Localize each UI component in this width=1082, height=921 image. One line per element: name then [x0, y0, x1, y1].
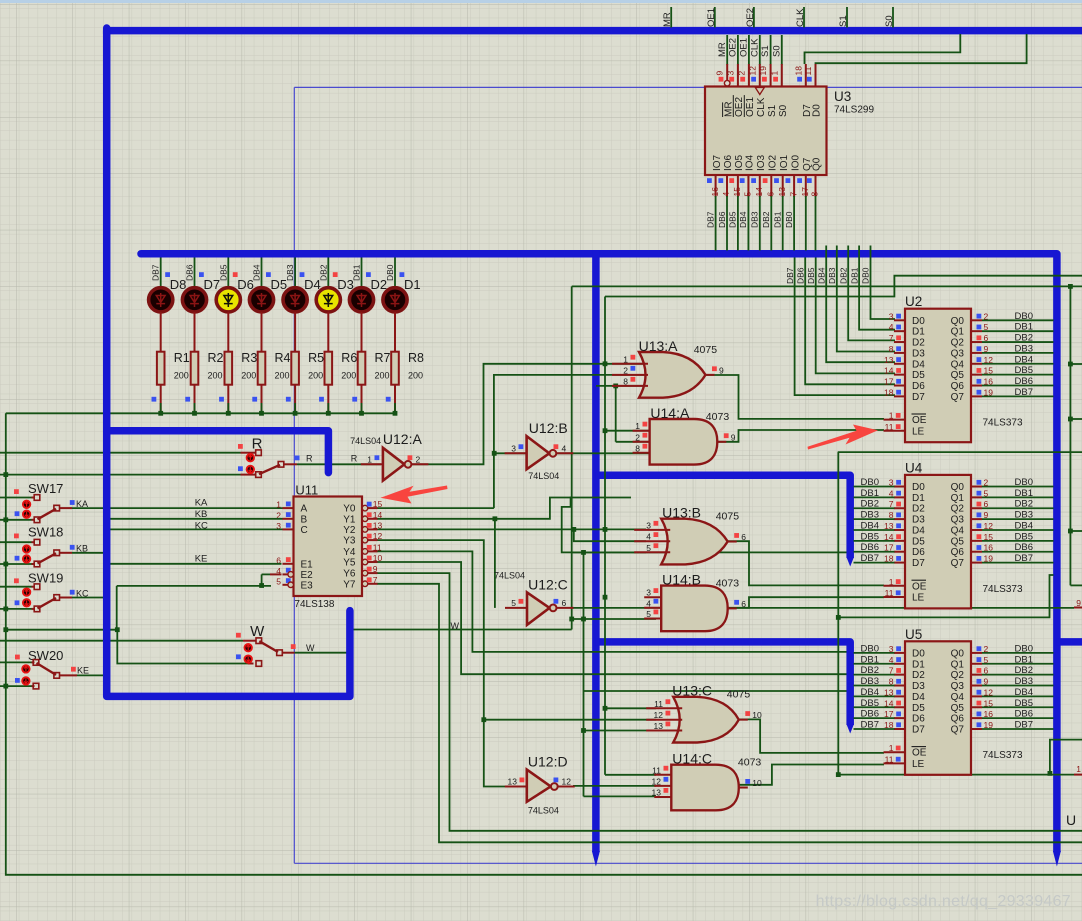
wire net DB5 from bus to LED D6	[227, 258, 229, 289]
svg-text:DB2: DB2	[1015, 333, 1033, 344]
LED D6	[216, 288, 240, 312]
svg-text:14: 14	[373, 510, 383, 520]
U3 bottom wire to bus (IO7)	[715, 196, 717, 251]
svg-text:6: 6	[741, 532, 746, 542]
svg-text:U5: U5	[905, 627, 922, 642]
latch U5 body (74LS373)	[905, 641, 971, 775]
svg-text:D6: D6	[912, 381, 925, 392]
wire net DB6 from U5 Q6 to right bus	[982, 717, 1054, 719]
wire net R to U12:A input	[297, 463, 381, 465]
junction dot R6 rail	[326, 411, 331, 416]
svg-text:Q0: Q0	[812, 157, 823, 171]
wire U12:D output row to U14:C in2	[573, 785, 656, 787]
svg-text:3: 3	[889, 311, 894, 321]
svg-text:DB0: DB0	[861, 267, 871, 284]
wire net S0 from top edge to bus	[892, 7, 894, 28]
pin indicator square D7	[199, 272, 204, 277]
svg-text:D0: D0	[912, 482, 925, 493]
and-gate U14:A input pin 2	[633, 441, 650, 443]
wire net DB4 into U4 D4	[854, 529, 895, 531]
svg-text:DB5: DB5	[806, 267, 816, 284]
svg-text:IO6: IO6	[723, 154, 734, 171]
svg-text:1: 1	[889, 577, 894, 587]
svg-text:DB7: DB7	[705, 211, 715, 228]
pin indicator square below R7	[352, 397, 357, 402]
U3 pin 9 (MR) top stub	[726, 35, 728, 65]
latch U5 pin 11 (LE) stub	[884, 762, 906, 764]
resistor R2 body	[191, 352, 199, 385]
wire net KC to bus entry	[72, 597, 104, 599]
svg-text:Q7: Q7	[951, 724, 965, 735]
and-gate U14:C output pin 10	[739, 787, 748, 789]
svg-text:IO0: IO0	[790, 154, 801, 171]
svg-text:DB7: DB7	[1015, 387, 1033, 398]
svg-text:R: R	[306, 454, 313, 464]
latch U4 pin 9 (Q3) stub	[971, 518, 982, 520]
bus: U5 latch feed bus y=642 with stub	[596, 642, 850, 725]
svg-text:12: 12	[654, 710, 664, 720]
svg-text:Q6: Q6	[951, 714, 965, 725]
bus: LED data bus horizontal y=254 and right vertical bus	[141, 250, 150, 258]
svg-text:OE: OE	[912, 415, 927, 426]
junction dots near x=572/583	[569, 617, 574, 622]
svg-text:W: W	[306, 643, 315, 653]
wire resistor R1 to ground rail	[160, 385, 162, 414]
svg-text:S0: S0	[778, 104, 789, 117]
latch U4 pin 13 (D4) stub	[894, 529, 905, 531]
bus: left vertical bus with bottom elbow and riser to x=350	[107, 28, 350, 696]
svg-text:R8: R8	[408, 351, 424, 365]
svg-text:CLK: CLK	[749, 38, 760, 57]
latch U5 pin 17 (D6) stub	[894, 717, 905, 719]
svg-text:Q2: Q2	[951, 504, 965, 515]
svg-text:LE: LE	[912, 426, 925, 437]
switch SW19 lever and pole	[38, 598, 57, 608]
U11 pin 13 (Y2) output stub with bubble	[362, 527, 368, 533]
svg-text:13: 13	[777, 187, 787, 197]
svg-text:DB1: DB1	[352, 264, 362, 281]
wire LED D6 to resistor R3	[227, 312, 229, 352]
wire U13:B output to U4 OE	[728, 541, 884, 585]
switch W toggle buttons	[245, 644, 252, 651]
svg-text:D2: D2	[912, 670, 925, 681]
U3 pin 16 (IO7) bottom stub	[715, 175, 717, 197]
svg-text:D0: D0	[912, 648, 925, 659]
svg-text:7: 7	[788, 192, 798, 197]
switch W lever and pole (down position)	[259, 641, 278, 652]
latch U2 pin 2 (Q0) stub	[971, 319, 982, 321]
svg-text:7: 7	[889, 333, 894, 343]
svg-text:D2: D2	[912, 338, 925, 349]
resistor R6 body	[325, 352, 333, 385]
inverter U12:A output stub	[411, 463, 428, 465]
or-gate U13:C body (4075)	[673, 697, 739, 743]
svg-text:DB4: DB4	[816, 267, 826, 284]
wire vertical x=605 main gate feed (in1 net)	[604, 297, 606, 775]
wire LED ground rail y=413	[6, 412, 395, 414]
U3 bottom wire to bus (IO2)	[770, 196, 772, 251]
svg-text:D1: D1	[912, 327, 925, 338]
U3 bottom wire to bus (Q0)	[815, 196, 817, 251]
svg-text:4: 4	[646, 532, 651, 542]
svg-text:DB2: DB2	[1015, 665, 1033, 676]
U3 bottom wire to bus (IO1)	[782, 196, 784, 251]
U3 chip body 74LS299	[705, 87, 827, 176]
wire net DB2 into U5 D2	[854, 674, 895, 676]
pin indicator square below R2	[185, 397, 190, 402]
svg-text:14: 14	[884, 366, 894, 376]
svg-text:Q2: Q2	[951, 670, 965, 681]
svg-text:DB0: DB0	[1015, 311, 1033, 322]
svg-text:OE: OE	[912, 748, 927, 759]
wire net DB7 from bus to LED D8	[160, 258, 162, 289]
wire net DB4 into U5 D4	[854, 695, 895, 697]
net label KB at switch	[70, 545, 75, 550]
svg-text:74LS373: 74LS373	[983, 418, 1023, 429]
pin indicator square below R8	[386, 397, 391, 402]
wire net DB3 from U5 Q3 to right bus	[982, 685, 1054, 687]
latch U2 body (74LS373)	[905, 309, 971, 443]
wire net DB7 from U5 Q7 to right bus	[982, 728, 1054, 730]
svg-text:KE: KE	[195, 554, 208, 565]
wire net DB0 from U5 Q0 to right bus	[982, 652, 1054, 654]
and-gate U14:A input pin 1	[633, 430, 650, 432]
svg-text:DB3: DB3	[827, 267, 837, 284]
svg-text:DB4: DB4	[861, 520, 879, 531]
svg-text:R5: R5	[308, 351, 324, 365]
svg-text:10: 10	[373, 553, 383, 563]
svg-text:10: 10	[752, 778, 762, 788]
U3 bottom wire to bus (IO4)	[747, 196, 749, 251]
junction dot R3 rail	[226, 411, 231, 416]
or-gate U13:A body (4075)	[639, 352, 706, 398]
wire row y=617 to x=1049.5 and up to bus	[838, 575, 1053, 617]
svg-text:DB3: DB3	[1015, 676, 1033, 687]
wire LED D3 to resistor R6	[327, 312, 329, 352]
svg-text:13: 13	[652, 788, 662, 798]
svg-text:MR: MR	[723, 101, 734, 117]
latch U5 pin 2 (Q0) stub	[971, 652, 982, 654]
svg-text:DB2: DB2	[761, 211, 771, 228]
svg-text:DB6: DB6	[1015, 376, 1033, 387]
wire net DB0 from U2 Q0 to right bus	[982, 319, 1054, 321]
latch U2 pin 9 (Q3) stub	[971, 352, 982, 354]
wire branch y=585 to right edge	[1070, 584, 1082, 586]
wire net DB0 column to U2 D0	[871, 246, 896, 320]
svg-text:5: 5	[276, 576, 281, 586]
wire row y=630 left of bus	[4, 629, 117, 631]
svg-text:Q2: Q2	[951, 338, 965, 349]
latch U4 pin 11 (LE) stub	[884, 596, 906, 598]
svg-text:U3: U3	[834, 89, 851, 104]
svg-text:D4: D4	[912, 359, 925, 370]
svg-text:12: 12	[652, 776, 662, 786]
bus: R branch bus y=431 with stub down	[107, 431, 329, 473]
svg-text:DB4: DB4	[252, 264, 262, 281]
svg-text:DB0: DB0	[784, 211, 794, 228]
svg-text:U12:A: U12:A	[383, 431, 423, 447]
or-gate U13:A input pin 1	[612, 363, 648, 365]
svg-text:12: 12	[373, 531, 383, 541]
and-gate U14:C input pin 11	[654, 774, 671, 776]
latch U2 pin 6 (Q2) stub	[971, 341, 982, 343]
wire net KC row into U11 C	[110, 528, 283, 530]
svg-text:1: 1	[889, 743, 894, 753]
svg-text:200: 200	[408, 371, 423, 381]
wire vertical x=1070 right margin with branches	[1069, 286, 1071, 585]
junction dots on far-left vertical	[3, 472, 8, 477]
svg-text:DB0: DB0	[861, 477, 879, 488]
switch SW17 toggle buttons	[23, 501, 30, 508]
latch U5 pin 12 (Q4) stub	[971, 695, 982, 697]
or-gate U13:A output pin 9	[706, 374, 715, 376]
wire net DB0 from bus to LED D1	[394, 258, 396, 289]
switch R state squares	[238, 444, 243, 449]
svg-text:DB2: DB2	[838, 267, 848, 284]
switch SW18 state squares	[14, 534, 19, 539]
svg-text:8: 8	[635, 443, 640, 453]
or-gate U13:A input pin 2	[612, 374, 648, 376]
svg-text:U14:B: U14:B	[662, 571, 701, 587]
wire net DB0 into U5 D0	[854, 652, 895, 654]
svg-text:DB6: DB6	[1015, 709, 1033, 720]
svg-text:DB5: DB5	[861, 698, 879, 709]
junction dot U12:C feed on Y1 row	[493, 516, 498, 521]
or-gate U13:B input pin 5	[634, 551, 670, 553]
resistor R7 body	[358, 352, 366, 385]
svg-text:KB: KB	[195, 509, 208, 520]
wire LED D5 to resistor R4	[261, 312, 263, 352]
bus: middle vertical bus pointed tip	[592, 851, 600, 867]
wire staircase to U13:B in3	[562, 497, 646, 553]
svg-text:11: 11	[885, 588, 894, 598]
wire net DB3 column to U2 D3	[837, 246, 895, 352]
pin indicator square D6	[233, 272, 238, 277]
svg-text:U4: U4	[905, 460, 923, 475]
U3 pin 19 (S1) top stub	[770, 35, 772, 65]
svg-text:74LS04: 74LS04	[528, 471, 559, 481]
wire net DB7 into U5 D7	[854, 728, 895, 730]
wire row y=691 to U5 bus stub	[584, 690, 847, 692]
wire net DB2 from U4 Q2 to right bus	[982, 507, 1054, 509]
svg-text:D3: D3	[912, 681, 925, 692]
wire net W: row y=629.5 from bus stub to x=571.7	[354, 629, 572, 631]
U11 pin 6 (E1) stub	[283, 563, 294, 565]
svg-text:Y6: Y6	[343, 569, 356, 580]
and-gate U14:B input pin 5	[644, 618, 661, 620]
latch U4 pin 6 (Q2) stub	[971, 507, 982, 509]
svg-text:8: 8	[623, 376, 628, 386]
U3 pin 13 (IO1) bottom stub	[782, 175, 784, 197]
svg-text:Q3: Q3	[951, 681, 965, 692]
svg-text:https://blog.csdn.net/qq_29339: https://blog.csdn.net/qq_29339467	[816, 893, 1071, 910]
wire net DB2 column to U2 D2	[848, 246, 895, 341]
latch U4 pin 17 (D6) stub	[894, 551, 905, 553]
pin indicator square D8	[165, 272, 170, 277]
wire net DB1 from bus to LED D2	[361, 258, 363, 289]
svg-text:1: 1	[769, 71, 779, 76]
bus: right vertical bus pointed tip	[1053, 851, 1061, 867]
svg-text:DB5: DB5	[728, 211, 738, 228]
svg-text:13: 13	[373, 520, 383, 530]
latch U2 pin 5 (Q1) stub	[971, 330, 982, 332]
latch U4 pin 15 (Q5) stub	[971, 540, 982, 542]
svg-text:4: 4	[562, 443, 567, 453]
wire D0 elbow from bus x=1027	[816, 34, 1027, 64]
wire branch y=364 to right edge	[1070, 363, 1082, 365]
svg-text:Y3: Y3	[343, 536, 356, 547]
resistor R4 body	[258, 352, 266, 385]
switch SW20 upper throw wire	[0, 661, 32, 663]
junction dot U12:B input	[492, 451, 497, 456]
svg-text:DB1: DB1	[849, 267, 859, 284]
wire net DB5 from U5 Q5 to right bus	[982, 706, 1054, 708]
svg-text:DB2: DB2	[1015, 499, 1033, 510]
latch U2 pin 16 (Q6) stub	[971, 385, 982, 387]
svg-text:11: 11	[885, 754, 894, 764]
svg-text:DB1: DB1	[1015, 322, 1033, 333]
svg-text:IO2: IO2	[768, 154, 779, 171]
U11 chip body 74LS138	[294, 497, 363, 597]
latch U2 pin 4 (D1) stub	[894, 330, 905, 332]
svg-text:U13:B: U13:B	[662, 505, 701, 521]
svg-text:8: 8	[889, 344, 894, 354]
inverter U12:D output stub	[558, 786, 575, 788]
wire LED D2 to resistor R7	[361, 312, 363, 352]
svg-text:DB4: DB4	[1015, 520, 1033, 531]
svg-text:18: 18	[793, 66, 803, 76]
wire net DB4 from bus to LED D5	[261, 258, 263, 289]
inverter U12:C output bubble	[550, 605, 557, 612]
and-gate U14:C input pin 13	[654, 796, 671, 798]
svg-text:7: 7	[373, 575, 378, 585]
latch U2 pin 19 (Q7) stub	[971, 395, 982, 397]
svg-text:LE: LE	[912, 759, 925, 770]
LED D3	[316, 288, 340, 312]
net label R on wire	[295, 456, 300, 461]
pin indicator square below R4	[252, 397, 257, 402]
or-gate U13:B input pin 3	[634, 529, 670, 531]
svg-text:OE2: OE2	[734, 97, 745, 117]
latch U4 pin 2 (Q0) stub	[971, 486, 982, 488]
wire net W to middle blue stub	[295, 652, 347, 654]
svg-text:DB0: DB0	[1015, 477, 1033, 488]
switch SW18 toggle buttons	[23, 545, 30, 552]
inverter U12:B output bubble	[550, 450, 557, 457]
svg-text:OE1: OE1	[739, 38, 750, 57]
wire riser x=1049.9 to row y=740	[1050, 740, 1082, 774]
svg-text:Y7: Y7	[343, 579, 356, 590]
svg-text:W: W	[451, 621, 460, 631]
pin indicator square below R3	[219, 397, 224, 402]
svg-text:DB4: DB4	[738, 211, 748, 228]
pin stub 9 at right edge	[1074, 607, 1082, 609]
wire row y=775 to right edge pin 1	[838, 774, 1074, 776]
svg-text:200: 200	[275, 371, 290, 381]
svg-text:D2: D2	[912, 504, 925, 515]
svg-text:5: 5	[511, 598, 516, 608]
svg-text:DB0: DB0	[861, 643, 879, 654]
svg-text:E2: E2	[301, 570, 314, 581]
svg-text:Y2: Y2	[343, 525, 356, 536]
svg-text:IO3: IO3	[756, 154, 767, 171]
svg-text:1: 1	[623, 354, 628, 364]
wire U14:C in3 row y=797 from x=583.5	[584, 795, 657, 797]
U3 bottom wire to bus (IO0)	[793, 196, 795, 251]
latch U4 pin 1 (OE) stub	[884, 585, 906, 587]
annotation arrow at U11 Y0 pin 15	[381, 486, 448, 504]
svg-text:DB6: DB6	[861, 542, 879, 553]
U3 bottom wire to bus (Q7)	[805, 196, 807, 251]
svg-text:9: 9	[715, 71, 725, 76]
svg-text:C: C	[301, 525, 308, 536]
svg-text:9: 9	[719, 365, 724, 375]
wire net OE2 from top edge to bus	[753, 7, 755, 28]
svg-text:2: 2	[623, 365, 628, 375]
wire net DB0 into U4 D0	[854, 486, 895, 488]
svg-text:2: 2	[635, 432, 640, 442]
inverter U12:A output bubble	[405, 461, 412, 468]
svg-text:200: 200	[241, 371, 256, 381]
resistor R5 body	[291, 352, 299, 385]
wire net DB0 from U4 Q0 to right bus	[982, 486, 1054, 488]
svg-text:3: 3	[646, 520, 651, 530]
svg-text:11: 11	[654, 699, 663, 709]
wire net DB1 from U5 Q1 to right bus	[982, 663, 1054, 665]
svg-text:4075: 4075	[727, 689, 751, 701]
wire LED D7 to resistor R2	[194, 312, 196, 352]
svg-text:Q5: Q5	[951, 536, 965, 547]
wire net DB3 into U4 D3	[854, 518, 895, 520]
U3 pin 8 (Q0) bottom stub	[815, 175, 817, 197]
svg-text:IO4: IO4	[745, 154, 756, 171]
wire Y0 row from U11 to x=494	[377, 507, 494, 509]
svg-text:Q0: Q0	[951, 648, 965, 659]
latch U4 pin 5 (Q1) stub	[971, 496, 982, 498]
LED D1	[383, 288, 407, 312]
U3 pin 15 (IO5) bottom stub	[737, 175, 739, 197]
svg-text:R2: R2	[208, 351, 224, 365]
svg-text:15: 15	[373, 499, 383, 509]
wire net DB4 from U5 Q4 to right bus	[982, 695, 1054, 697]
or-gate U13:B output pin 6	[728, 541, 737, 543]
svg-text:DB4: DB4	[1015, 687, 1033, 698]
switch R terminals	[256, 450, 262, 456]
inverter U12:B input stub	[505, 452, 527, 454]
svg-text:IO7: IO7	[712, 154, 723, 171]
wire U14:A output to U2 LE	[717, 430, 884, 442]
net label KA at switch	[70, 500, 75, 505]
switch W upper throw wire	[0, 640, 243, 642]
latch U2 pin 7 (D2) stub	[894, 341, 905, 343]
svg-text:Q6: Q6	[951, 381, 965, 392]
svg-text:12: 12	[747, 66, 757, 76]
wire net DB7 from U2 Q7 to right bus	[982, 395, 1054, 397]
inverter U12:C input stub	[505, 607, 527, 609]
switch SW20 toggle buttons	[22, 665, 29, 672]
or-gate U13:C input pin 11	[646, 707, 682, 709]
svg-text:200: 200	[308, 371, 323, 381]
svg-text:U2: U2	[905, 294, 922, 309]
latch U5 pin 1 (OE) stub	[884, 751, 906, 753]
wire U12:A out up to U13:A in1 row	[412, 364, 646, 465]
wire U12:C output row y=608 to right edge	[573, 607, 1074, 609]
svg-text:5: 5	[743, 192, 753, 197]
svg-text:A: A	[301, 504, 308, 515]
svg-text:5: 5	[646, 609, 651, 619]
svg-text:LE: LE	[912, 593, 925, 604]
svg-text:DB6: DB6	[717, 211, 727, 228]
